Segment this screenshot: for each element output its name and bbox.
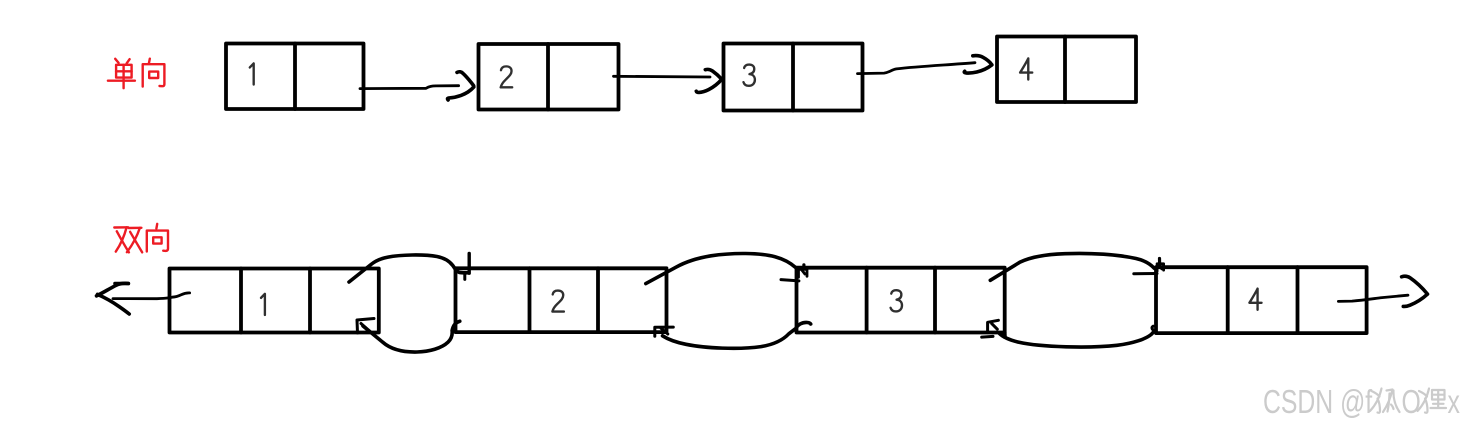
bottom arc arrow [363,321,460,352]
doubly right arrow [1338,276,1427,306]
arrow node2 to node3 [614,69,722,92]
horizontal arrow into node4 prev [1134,272,1157,275]
label 单向 (red, hand-drawn glyph strokes) [108,59,164,88]
top arc arrow [349,255,469,282]
arrow node3 to node4 [858,56,992,74]
doubly left arrow [96,283,189,314]
arrowhead flag at node3 prev top [802,265,805,269]
doubly digit 1 [261,294,265,315]
doubly node 1 box (3 cells) [170,269,379,333]
arrow node1 to node2 [360,72,474,100]
singly node 4 box [997,37,1136,103]
singly node 2 box [479,44,619,110]
square-hook arrowhead (into node3 next) [988,320,999,332]
link blob between doubly nodes 1 and 2 [349,254,469,353]
svg-text:O: O [1402,383,1421,421]
svg-text:CSDN @f: CSDN @f [1263,383,1373,421]
small hook at node4 prev bottom [1152,326,1155,331]
top arc arrow [990,253,1154,280]
doubly node 2 box (3 cells) [456,268,667,332]
link blob between doubly nodes 3 and 4 [982,253,1164,347]
doubly digit 3 [891,290,902,311]
top arc arrow [646,253,796,283]
watermark glyph 狸 [1418,389,1447,413]
singly node 3 box [724,44,863,111]
doubly digit 4 [1249,289,1261,310]
doubly digit 2 [552,291,564,312]
label 双向 (red, hand-drawn glyph strokes) [114,224,168,253]
bottom arc arrow [663,322,811,348]
doubly node 4 box (3 cells) [1156,267,1367,333]
singly node 1 box [226,44,364,110]
digit 1 [250,63,254,84]
link blob between doubly nodes 2 and 3 [646,253,811,348]
watermark CSDN @f狐O狸x [1263,383,1460,421]
digit 2 [501,66,513,87]
watermark glyph 狐 [1370,389,1400,413]
digit 3 [744,65,755,86]
square-hook arrowhead (into node1 next) [357,319,374,334]
doubly node 3 box (3 cells) [797,268,1005,337]
svg-text:x: x [1448,383,1461,421]
square-hook arrowhead (into node2 next) [655,327,674,336]
bottom arc arrow [1000,331,1155,347]
digit 4 [1020,58,1032,79]
arrowhead flag at node4 prev top [1158,259,1161,264]
arrowhead tick (down into node2 prev) [468,254,471,274]
